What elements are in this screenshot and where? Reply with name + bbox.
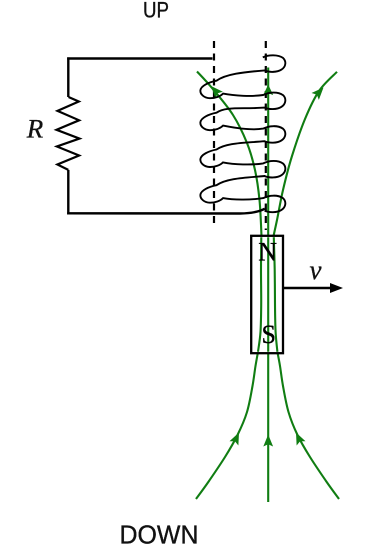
field line right through magnet bbox=[274, 236, 278, 353]
wire top (resistor to coil) bbox=[67, 57, 212, 59]
arrowhead top-left field line bbox=[207, 83, 223, 99]
field line center vertical bbox=[267, 68, 269, 503]
field line right bottom branch bbox=[278, 353, 339, 499]
arrowhead bottom-right field line bbox=[292, 430, 306, 445]
field line left top branch bbox=[197, 72, 262, 237]
svg-text:DOWN: DOWN bbox=[120, 520, 199, 550]
field line left inside magnet bbox=[258, 237, 261, 352]
resistor R bbox=[57, 97, 80, 170]
wire left upper bbox=[67, 57, 69, 97]
field line center inside magnet bbox=[267, 237, 269, 352]
field line left bottom branch bbox=[196, 353, 258, 499]
velocity arrowhead bbox=[330, 283, 343, 293]
field line right top branch bbox=[274, 72, 338, 236]
dashed guide line left bbox=[213, 41, 215, 227]
wire left lower bbox=[67, 170, 69, 215]
inductor coil bbox=[200, 55, 285, 212]
arrowhead top-right field line bbox=[312, 84, 328, 100]
svg-text:S: S bbox=[262, 320, 276, 349]
svg-text:R: R bbox=[26, 115, 44, 144]
arrowhead bottom-center field line bbox=[263, 435, 273, 447]
svg-text:v: v bbox=[310, 255, 322, 285]
dashed guide line right bbox=[265, 41, 267, 230]
arrowhead top-center field line bbox=[263, 85, 273, 96]
field line right inside magnet bbox=[274, 237, 278, 352]
svg-text:UP: UP bbox=[143, 0, 169, 23]
magnet bar bbox=[251, 236, 283, 353]
field line left through magnet bbox=[258, 236, 262, 353]
arrowhead bottom-left field line bbox=[229, 430, 243, 445]
wire bottom (coil to resistor) bbox=[67, 209, 265, 214]
velocity arrow bbox=[283, 287, 332, 289]
svg-text:N: N bbox=[258, 237, 277, 266]
